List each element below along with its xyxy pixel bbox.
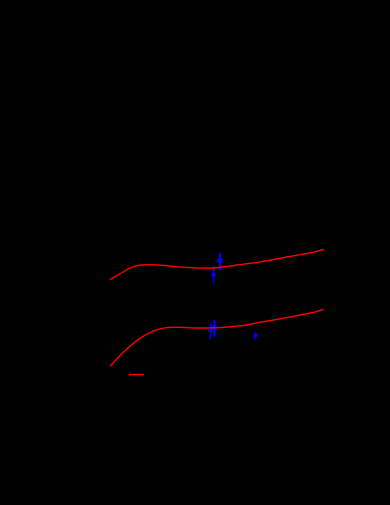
data point B error bar (upper panel lower limit, x=213.5) [211, 268, 216, 284]
data point A error bar (upper panel, x=220) [217, 253, 223, 271]
data point C2 error bar (lower panel, thin, x=210.5) [208, 323, 213, 340]
lower red model curve [110, 309, 323, 366]
data point D error bar (lower panel, x=255.4) [253, 332, 258, 340]
upper red model curve [110, 249, 324, 279]
legend red line sample [129, 374, 144, 375]
data point C1 error bar (lower panel, thick, x=214.3) [211, 320, 217, 337]
